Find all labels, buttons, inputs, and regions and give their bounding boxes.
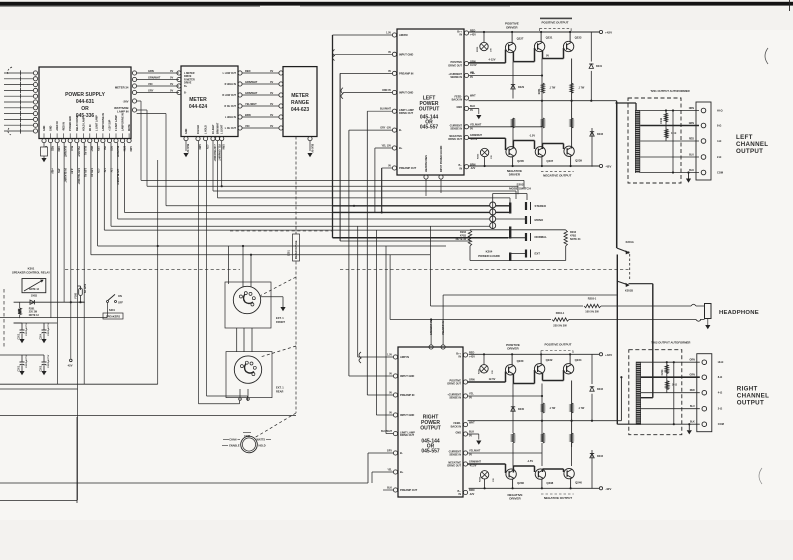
svg-text:BLK: BLK — [690, 421, 695, 424]
svg-text:BLU AU: BLU AU — [83, 146, 86, 155]
svg-text:044-631: 044-631 — [76, 99, 95, 105]
svg-text:0V: 0V — [469, 454, 472, 457]
svg-text:DRIVE OUT: DRIVE OUT — [448, 64, 462, 67]
svg-text:Q239: Q239 — [575, 158, 582, 162]
svg-text:0V: 0V — [388, 51, 391, 54]
svg-text:0V: 0V — [470, 76, 473, 79]
svg-text:POSITIVE OUTPUT: POSITIVE OUTPUT — [541, 21, 568, 25]
svg-text:D232: D232 — [597, 388, 604, 391]
svg-text:-1.5V: -1.5V — [527, 459, 533, 463]
svg-text:COM: COM — [244, 435, 250, 438]
svg-text:0V: 0V — [270, 69, 273, 73]
svg-text:8-Ω: 8-Ω — [718, 375, 722, 379]
svg-text:Q236: Q236 — [517, 481, 524, 485]
svg-text:-42V: -42V — [605, 487, 611, 491]
svg-text:SENSE IN: SENSE IN — [450, 76, 462, 79]
svg-text:VIO: VIO — [148, 82, 152, 86]
svg-text:Q231: Q231 — [546, 36, 553, 40]
svg-text:POWER GND: POWER GND — [69, 116, 72, 131]
svg-text:0V: 0V — [170, 75, 173, 79]
svg-text:Q235: Q235 — [517, 159, 524, 163]
svg-text:10000µF/75V: 10000µF/75V — [48, 354, 50, 368]
svg-text:-41.5V: -41.5V — [469, 465, 477, 468]
svg-text:BLU: BLU — [689, 154, 694, 157]
svg-text:10 Ω: 10 Ω — [672, 384, 677, 387]
svg-text:+42V: +42V — [470, 34, 476, 37]
svg-text:2-Ω: 2-Ω — [718, 407, 722, 411]
svg-text:L LOW OUT: L LOW OUT — [223, 72, 237, 75]
svg-text:BLU/WHT: BLU/WHT — [380, 108, 392, 111]
svg-text:DRIVER: DRIVER — [507, 347, 519, 351]
svg-text:L LIMIT LAMP: L LIMIT LAMP — [95, 115, 98, 131]
svg-text:044-624: 044-624 — [189, 104, 208, 110]
svg-text:F LIMIT LAMP: F LIMIT LAMP — [115, 115, 118, 131]
svg-text:0V: 0V — [270, 91, 273, 95]
svg-text:045-557: 045-557 — [420, 125, 439, 131]
svg-text:0V: 0V — [389, 392, 392, 395]
svg-text:WHT: WHT — [470, 95, 476, 98]
svg-text:RELAY DRIVE: RELAY DRIVE — [76, 115, 79, 131]
svg-text:ON: ON — [118, 295, 122, 298]
svg-text:.1 7W: .1 7W — [549, 407, 556, 410]
svg-text:2-Ω: 2-Ω — [717, 155, 721, 159]
svg-text:PREAMP IN: PREAMP IN — [399, 71, 413, 75]
svg-text:RANGE: RANGE — [291, 100, 310, 106]
svg-text:F300: F300 — [75, 292, 78, 298]
svg-text:GRY: GRY — [148, 88, 154, 92]
svg-text:INPUT POWER GUARD: INPUT POWER GUARD — [440, 145, 443, 172]
svg-text:0V: 0V — [270, 124, 273, 128]
svg-text:K204: K204 — [486, 249, 493, 253]
svg-text:220 5% 2W: 220 5% 2W — [553, 324, 567, 328]
svg-text:EXT. 1: EXT. 1 — [276, 316, 284, 320]
svg-text:INPUT GND: INPUT GND — [399, 91, 413, 95]
svg-text:HI-Ω: HI-Ω — [718, 360, 724, 364]
svg-text:R LIGHT: R LIGHT — [212, 124, 215, 134]
svg-text:Q237: Q237 — [546, 159, 553, 163]
svg-text:R203-1: R203-1 — [588, 297, 597, 301]
svg-text:GRY -15V: GRY -15V — [380, 127, 391, 130]
svg-text:0V: 0V — [170, 69, 173, 73]
svg-text:+42V: +42V — [605, 353, 612, 357]
svg-text:BLK: BLK — [469, 431, 474, 434]
svg-text:0V: 0V — [470, 127, 473, 130]
svg-text:-42V: -42V — [605, 165, 611, 169]
svg-text:R225: R225 — [479, 476, 481, 482]
svg-text:SENSE IN: SENSE IN — [449, 454, 461, 457]
svg-text:.1 7W: .1 7W — [578, 87, 585, 90]
svg-text:NOTE 13: NOTE 13 — [29, 314, 40, 317]
svg-text:LAMP DRIVE IN: LAMP DRIVE IN — [102, 113, 105, 131]
svg-text:0V: 0V — [469, 435, 472, 438]
svg-text:INPUT GND: INPUT GND — [400, 374, 414, 378]
svg-text:GRN/WHT: GRN/WHT — [245, 80, 258, 84]
svg-text:12.5V: 12.5V — [489, 377, 496, 381]
svg-text:10 Ω: 10 Ω — [671, 132, 676, 135]
svg-text:100Ω: 100Ω — [31, 294, 37, 297]
svg-text:WATTS: WATTS — [257, 439, 266, 442]
svg-text:SENSE IN: SENSE IN — [449, 397, 461, 400]
svg-text:GND: GND — [50, 125, 53, 131]
svg-text:R231: R231 — [538, 88, 541, 94]
svg-text:DRIVE OUT: DRIVE OUT — [448, 138, 462, 141]
svg-text:10000µF/75V: 10000µF/75V — [26, 322, 28, 336]
svg-text:HI-Ω: HI-Ω — [717, 109, 723, 113]
svg-text:PREAMP OUT: PREAMP OUT — [400, 488, 418, 492]
svg-text:OFF: OFF — [118, 302, 123, 305]
svg-text:RED: RED — [245, 69, 251, 73]
svg-text:HEADPHONE: HEADPHONE — [719, 310, 759, 316]
svg-text:HEADPHONES: HEADPHONES — [425, 155, 428, 172]
svg-text:Q234: Q234 — [575, 358, 582, 362]
svg-text:4-Ω: 4-Ω — [717, 139, 721, 143]
svg-text:SPEAKERS: SPEAKERS — [106, 315, 121, 319]
svg-text:100 5% 2W: 100 5% 2W — [585, 310, 599, 314]
svg-text:OUTPUT: OUTPUT — [420, 426, 441, 432]
svg-text:YEL/WHT: YEL/WHT — [245, 102, 257, 106]
svg-text:BLK: BLK — [689, 169, 694, 172]
svg-text:BRN: BRN — [469, 489, 475, 492]
svg-text:6A 125V: 6A 125V — [84, 283, 87, 293]
svg-text:D233: D233 — [597, 133, 604, 136]
svg-text:C303: C303 — [41, 365, 43, 371]
svg-text:POWER GUARD: POWER GUARD — [478, 254, 500, 258]
svg-text:GRN: GRN — [689, 374, 695, 377]
svg-text:ORN 0V: ORN 0V — [382, 89, 391, 92]
svg-text:Q227: Q227 — [517, 37, 524, 41]
svg-text:COM: COM — [717, 171, 723, 175]
svg-text:YEL 15V: YEL 15V — [381, 145, 391, 148]
svg-text:R203: R203 — [570, 231, 577, 234]
svg-text:+12V SUP: +12V SUP — [109, 119, 112, 131]
svg-text:CHANNEL: CHANNEL — [737, 393, 769, 400]
svg-text:INPUT GND: INPUT GND — [399, 52, 413, 56]
svg-text:METER: METER — [291, 93, 309, 99]
svg-text:GRN/WHT: GRN/WHT — [470, 134, 482, 137]
svg-text:D234: D234 — [597, 455, 604, 458]
svg-text:METER: METER — [189, 97, 207, 103]
svg-text:YEL: YEL — [469, 393, 474, 396]
svg-text:EXT: EXT — [535, 252, 541, 256]
svg-text:GRN/WHT: GRN/WHT — [245, 91, 258, 95]
svg-text:RIGHT: RIGHT — [737, 386, 758, 393]
svg-text:ENABLE: ENABLE — [229, 445, 240, 448]
svg-text:IN: IN — [460, 167, 463, 170]
svg-text:K201A: K201A — [626, 240, 634, 244]
svg-text:Q233: Q233 — [575, 36, 582, 40]
svg-text:DRIVE OUT: DRIVE OUT — [400, 433, 415, 437]
svg-text:L HOLD: L HOLD — [205, 125, 208, 134]
svg-text:B+: B+ — [399, 146, 403, 150]
svg-text:0V: 0V — [388, 165, 391, 168]
svg-text:41.5V: 41.5V — [470, 64, 477, 67]
svg-text:AMP IN: AMP IN — [400, 355, 409, 359]
svg-text:+42V: +42V — [605, 31, 612, 35]
svg-text:M1 IN: M1 IN — [89, 124, 92, 131]
svg-text:+12V BLK/WHT: +12V BLK/WHT — [213, 144, 216, 162]
svg-text:0V: 0V — [389, 373, 392, 376]
svg-text:BRN: BRN — [245, 113, 251, 117]
svg-text:0.8V AU: 0.8V AU — [90, 168, 93, 177]
svg-text:VIO: VIO — [245, 124, 249, 128]
svg-text:R229: R229 — [477, 46, 479, 52]
svg-text:10000µF/75V: 10000µF/75V — [48, 322, 50, 336]
svg-text:C301: C301 — [19, 365, 21, 371]
svg-text:045-557: 045-557 — [421, 449, 440, 455]
svg-text:GRN: GRN — [689, 122, 695, 125]
svg-text:C244: C244 — [660, 117, 663, 123]
svg-text:DRIVE OUT: DRIVE OUT — [447, 465, 461, 468]
svg-text:D231: D231 — [596, 65, 603, 68]
svg-text:-42V: -42V — [67, 364, 73, 368]
svg-text:RED: RED — [690, 389, 695, 392]
svg-text:LAMP DRIVE IN: LAMP DRIVE IN — [122, 113, 125, 131]
svg-text:GND: GND — [456, 106, 462, 109]
svg-text:METER RANGE: METER RANGE — [295, 240, 298, 259]
svg-text:R204-1: R204-1 — [556, 311, 565, 315]
svg-text:IN: IN — [459, 493, 462, 496]
svg-text:C244: C244 — [661, 369, 664, 375]
svg-text:NEGATIVE OUTPUT: NEGATIVE OUTPUT — [543, 174, 571, 178]
svg-text:0V: 0V — [270, 113, 273, 117]
svg-text:GRY: GRY — [387, 450, 392, 453]
svg-text:S301: S301 — [109, 308, 116, 312]
svg-text:DRIVER: DRIVER — [509, 173, 521, 177]
svg-text:CHANNEL: CHANNEL — [736, 141, 768, 148]
svg-text:R HOLD: R HOLD — [197, 125, 200, 134]
svg-text:L LIGHT: L LIGHT — [221, 124, 224, 134]
svg-text:STEREO: STEREO — [535, 204, 547, 208]
svg-text:0V: 0V — [470, 109, 473, 112]
svg-text:INPUT GND: INPUT GND — [400, 413, 414, 417]
svg-text:0V: 0V — [170, 88, 173, 92]
svg-text:LEFT: LEFT — [736, 134, 753, 141]
svg-text:D230: D230 — [518, 408, 525, 411]
svg-text:BLK 0V: BLK 0V — [311, 144, 314, 153]
svg-text:B-: B- — [400, 451, 403, 455]
svg-text:.1 7W: .1 7W — [578, 407, 585, 410]
svg-text:OUTPUT: OUTPUT — [737, 400, 764, 407]
svg-text:MODE SWITCH: MODE SWITCH — [509, 186, 531, 190]
svg-text:-42V: -42V — [470, 167, 476, 170]
svg-text:-1.5V: -1.5V — [529, 134, 535, 138]
svg-text:0V: 0V — [546, 55, 549, 58]
svg-text:L HIGH IN: L HIGH IN — [225, 116, 236, 119]
svg-text:L CH OUT: L CH OUT — [225, 127, 237, 130]
svg-text:DRIVE OUT: DRIVE OUT — [399, 111, 414, 115]
svg-text:YEL: YEL — [387, 469, 392, 472]
svg-text:HOLD LAMP: HOLD LAMP — [82, 116, 85, 131]
svg-text:BACK IN: BACK IN — [451, 425, 462, 428]
svg-text:-12V: -12V — [206, 144, 209, 149]
svg-text:1.5V: 1.5V — [386, 32, 391, 35]
svg-text:T202 OUTPUT AUTOFORMER: T202 OUTPUT AUTOFORMER — [651, 341, 690, 345]
svg-text:R202: R202 — [460, 231, 467, 234]
svg-text:Q238: Q238 — [546, 481, 553, 485]
svg-text:470Ω: 470Ω — [570, 235, 576, 238]
svg-text:0V: 0V — [270, 102, 273, 106]
svg-text:R CH OUT: R CH OUT — [224, 105, 236, 108]
svg-text:ORN: ORN — [689, 107, 695, 110]
svg-text:GRN: GRN — [222, 144, 225, 150]
svg-text:0V: 0V — [388, 70, 391, 73]
svg-text:PREAMP IN: PREAMP IN — [400, 393, 414, 397]
svg-text:1.5V: 1.5V — [387, 354, 392, 357]
svg-text:R235: R235 — [478, 153, 480, 159]
svg-text:+42V: +42V — [469, 356, 475, 359]
svg-text:8-Ω: 8-Ω — [717, 124, 721, 128]
svg-text:YEL/WHT: YEL/WHT — [470, 124, 482, 127]
svg-text:RED: RED — [689, 138, 694, 141]
svg-text:470Ω: 470Ω — [460, 235, 466, 238]
svg-text:R HIGH IN: R HIGH IN — [225, 83, 237, 86]
svg-text:K201B: K201B — [625, 289, 633, 293]
svg-text:IN: IN — [460, 34, 463, 37]
svg-text:NORMAL: NORMAL — [535, 235, 548, 239]
svg-text:Q240: Q240 — [575, 481, 582, 485]
svg-text:PREAMP OUT: PREAMP OUT — [399, 166, 417, 170]
svg-text:LAMP IN: LAMP IN — [117, 110, 128, 114]
svg-text:GND: GND — [185, 128, 188, 134]
svg-text:OUTPUT: OUTPUT — [419, 107, 440, 113]
svg-text:10000µF/75V: 10000µF/75V — [26, 354, 28, 368]
svg-text:C304: C304 — [40, 333, 43, 339]
svg-text:GRN/WHT: GRN/WHT — [148, 75, 161, 79]
svg-text:EXT. 1: EXT. 1 — [276, 386, 284, 390]
svg-text:CHAN: CHAN — [229, 439, 236, 442]
svg-text:NOTE 12: NOTE 12 — [29, 288, 40, 291]
svg-text:-42V: -42V — [469, 493, 475, 496]
svg-text:B-: B- — [184, 92, 187, 95]
svg-text:AM/FM: AM/FM — [399, 33, 408, 37]
svg-text:-26V: -26V — [123, 99, 129, 103]
svg-text:BLK 0V: BLK 0V — [186, 144, 189, 153]
svg-text:GRN: GRN — [148, 69, 154, 73]
svg-text:-RED IN: -RED IN — [63, 122, 66, 131]
svg-text:OR: OR — [81, 106, 89, 112]
svg-text:METER 34: METER 34 — [115, 85, 129, 89]
svg-text:IN: IN — [459, 356, 462, 359]
svg-text:BLU: BLU — [690, 405, 695, 408]
svg-text:BACK IN: BACK IN — [452, 99, 463, 102]
svg-text:R221: R221 — [479, 368, 481, 374]
svg-text:+RED IN: +RED IN — [56, 121, 59, 131]
svg-text:POWER SUPPLY: POWER SUPPLY — [65, 92, 105, 98]
svg-text:POSITIVE OUTPUT: POSITIVE OUTPUT — [544, 343, 571, 347]
svg-text:4-Ω: 4-Ω — [718, 391, 722, 395]
svg-text:Q230: Q230 — [517, 359, 524, 363]
svg-text:0V: 0V — [389, 412, 392, 415]
svg-text:WHT: WHT — [469, 421, 475, 424]
svg-text:GND: GND — [43, 125, 46, 131]
svg-text:GRN: GRN — [129, 146, 132, 152]
svg-text:MONO: MONO — [535, 218, 545, 222]
svg-text:COM: COM — [718, 422, 724, 426]
svg-text:0V: 0V — [270, 80, 273, 84]
svg-text:GND: GND — [455, 432, 461, 435]
svg-text:HOLD: HOLD — [259, 445, 266, 448]
svg-text:0V: 0V — [170, 82, 173, 86]
svg-text:NOTE 34: NOTE 34 — [456, 238, 467, 241]
svg-text:BLU/WHT: BLU/WHT — [381, 430, 393, 433]
svg-text:WHT: WHT — [90, 146, 93, 152]
svg-text:B+: B+ — [400, 470, 404, 474]
svg-text:OUTPUT: OUTPUT — [736, 148, 763, 155]
svg-text:SENSE IN: SENSE IN — [450, 128, 462, 131]
svg-text:R LOW OUT: R LOW OUT — [222, 94, 236, 97]
svg-text:0V: 0V — [469, 397, 472, 400]
svg-text:044-623: 044-623 — [291, 107, 310, 113]
svg-text:SPEAKER CONTROL RELAY: SPEAKER CONTROL RELAY — [12, 271, 50, 275]
svg-text:FRONT: FRONT — [276, 320, 285, 324]
svg-text:4-12V: 4-12V — [489, 58, 496, 62]
svg-text:YEL: YEL — [470, 72, 475, 75]
svg-text:ORN: ORN — [689, 359, 695, 362]
svg-text:T201 OUTPUT AUTOFORMER: T201 OUTPUT AUTOFORMER — [650, 89, 689, 93]
svg-text:D229: D229 — [518, 86, 525, 89]
svg-text:DRIVER: DRIVER — [509, 496, 521, 500]
svg-text:YEL/WHT 0V: YEL/WHT 0V — [442, 320, 445, 335]
svg-text:Q232: Q232 — [546, 358, 553, 362]
svg-text:0.8V AU: 0.8V AU — [83, 168, 86, 177]
svg-text:YEL GRN/WHT: YEL GRN/WHT — [218, 144, 221, 161]
svg-text:YEL/WHT: YEL/WHT — [469, 450, 481, 453]
svg-text:NEGATIVE OUTPUT: NEGATIVE OUTPUT — [544, 496, 572, 500]
svg-text:B-: B- — [399, 128, 402, 132]
svg-text:NOTE 34: NOTE 34 — [570, 238, 581, 241]
svg-text:BLK: BLK — [470, 105, 475, 108]
svg-text:C302: C302 — [19, 333, 21, 339]
svg-text:BRN/WHT: BRN/WHT — [217, 122, 220, 134]
svg-text:DRIVER: DRIVER — [506, 25, 518, 29]
svg-text:MUTE: MUTE — [128, 124, 131, 131]
svg-text:GRN/WHT 0V: GRN/WHT 0V — [430, 320, 433, 335]
svg-text:DRIVE OUT: DRIVE OUT — [447, 383, 461, 386]
svg-text:BLK: BLK — [387, 487, 392, 490]
svg-text:REAR: REAR — [276, 390, 283, 394]
svg-text:.1 7W: .1 7W — [549, 87, 556, 90]
